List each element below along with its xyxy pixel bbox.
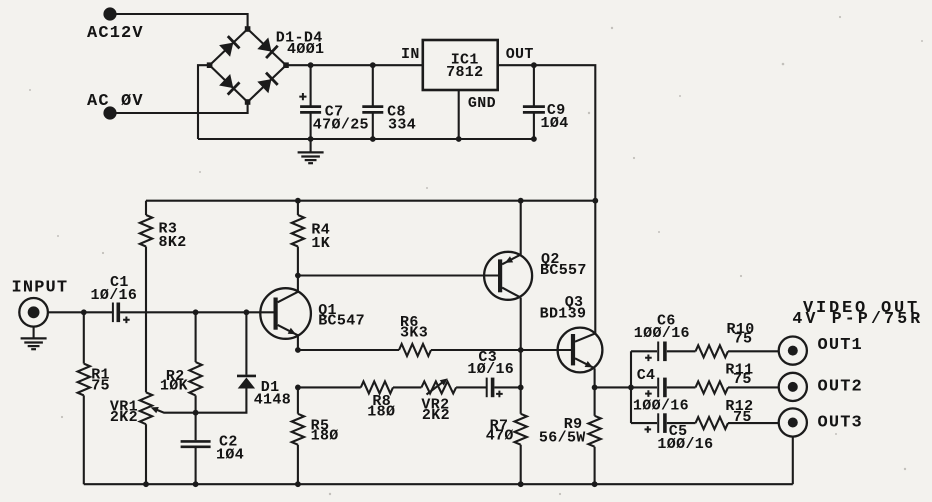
wire C6 to R10 <box>667 350 696 352</box>
svg-text:18Ø: 18Ø <box>311 428 339 445</box>
svg-text:7812: 7812 <box>446 64 483 81</box>
capacitor C1 <box>112 303 114 323</box>
wire amp ground rail <box>84 483 793 485</box>
wire R2 bottom lead <box>195 395 197 412</box>
resistor R7 <box>515 414 527 445</box>
svg-text:OUT3: OUT3 <box>818 413 863 432</box>
wire C2 bottom lead <box>195 447 197 484</box>
svg-text:1ØØ/16: 1ØØ/16 <box>657 436 713 453</box>
wire C4 to R11 <box>667 386 696 388</box>
wire R9 top lead <box>594 387 596 415</box>
svg-text:OUT1: OUT1 <box>818 336 863 355</box>
resistor R1 <box>78 364 90 396</box>
node R7 ground <box>518 481 524 487</box>
resistor R4 <box>292 215 304 247</box>
node C7 bottom <box>308 136 314 142</box>
wire C3 to node <box>494 386 520 388</box>
svg-text:56/5W: 56/5W <box>539 430 586 447</box>
node C2 ground <box>193 481 199 487</box>
diode D4 bridge bottom-right <box>257 79 271 93</box>
node feedback left <box>295 385 301 391</box>
resistor R2 <box>189 362 201 395</box>
svg-text:AC ØV: AC ØV <box>87 92 144 111</box>
node C3 right <box>518 385 524 391</box>
node C9 top <box>531 62 537 68</box>
wire R12 to OUT3 <box>728 422 778 424</box>
transistor Q1 <box>260 288 311 339</box>
terminal AC 0V <box>103 106 116 119</box>
wire VR2 to C3 <box>456 386 486 388</box>
wire bridge frame <box>210 29 286 102</box>
capacitor C8 <box>362 105 383 108</box>
capacitor C9 <box>523 105 545 108</box>
wire D1 anode to bias <box>196 389 247 413</box>
wire to R8 <box>298 386 361 388</box>
node R2 tap <box>193 309 199 315</box>
svg-text:18Ø: 18Ø <box>367 403 395 420</box>
wire R1 bottom lead <box>83 395 85 484</box>
node C8 bottom <box>370 136 376 142</box>
wire C8 leads <box>372 65 374 139</box>
node bridge top vertex <box>245 26 251 32</box>
svg-text:47Ø/25: 47Ø/25 <box>313 116 369 133</box>
node R1 tap <box>81 309 87 315</box>
node rail R4 <box>295 198 301 204</box>
wire Q2 emitter up <box>520 201 522 255</box>
plus C1 <box>123 317 130 324</box>
jack OUT3 <box>779 408 807 436</box>
diode D1 bridge top-left <box>219 43 233 57</box>
wire VR1 bottom lead <box>145 424 147 484</box>
svg-text:8K2: 8K2 <box>159 234 187 251</box>
wire OUT3 to ground rail <box>792 437 794 485</box>
node bridge left vertex <box>207 62 213 68</box>
svg-text:1Ø4: 1Ø4 <box>541 115 569 132</box>
wire input to C1 <box>48 311 112 313</box>
node R5 ground <box>295 481 301 487</box>
svg-text:4148: 4148 <box>254 392 291 409</box>
wire R3 top lead <box>145 201 147 215</box>
resistor R11 <box>696 381 729 393</box>
wire R11 to OUT2 <box>728 386 778 388</box>
wire OUT rail and drop <box>498 65 596 333</box>
wire hub to C5 <box>631 422 657 424</box>
node rail right <box>592 198 598 204</box>
wire R9 bottom lead <box>594 447 596 485</box>
resistor R12 <box>696 417 729 429</box>
resistor R10 <box>696 345 729 357</box>
wire R5 top lead <box>297 387 299 413</box>
svg-text:4V P-P/75R: 4V P-P/75R <box>792 309 923 328</box>
arrow VR2 <box>427 382 444 395</box>
svg-text:GND: GND <box>468 95 496 112</box>
resistor R6 <box>399 344 431 356</box>
svg-text:47Ø: 47Ø <box>486 428 514 445</box>
svg-text:3K3: 3K3 <box>400 324 428 341</box>
wire R7 top lead <box>520 350 522 414</box>
wire hub to C4 <box>631 386 657 388</box>
wire Q2 base <box>298 274 498 276</box>
node rail Q2 <box>518 198 524 204</box>
svg-text:1Ø4: 1Ø4 <box>216 446 244 463</box>
transistor Q2 <box>484 252 532 300</box>
wire hub to C6 <box>631 350 657 352</box>
svg-text:1ØØ/16: 1ØØ/16 <box>634 325 690 342</box>
arrow VR1 wiper <box>151 407 159 413</box>
capacitor C3 <box>486 378 488 398</box>
node VR1 ground <box>143 481 149 487</box>
wire PSU ground rail <box>198 138 536 140</box>
diode D3 bridge bottom-left <box>219 74 233 88</box>
diode D1 <box>237 375 256 378</box>
node Q1 emitter junction <box>295 347 301 353</box>
wire R7 bottom lead <box>520 445 522 485</box>
node Q1 collector / Q2 base <box>295 273 301 279</box>
transistor Q3 <box>558 328 603 373</box>
wire +12V amp rail <box>146 200 595 202</box>
capacitor C2 <box>181 440 211 443</box>
op-amp IC1 box <box>423 40 498 90</box>
wire Q3 emitter down <box>594 368 596 387</box>
svg-text:BD139: BD139 <box>540 306 587 323</box>
svg-text:C4: C4 <box>637 367 656 384</box>
wire bridge left to 0V rail <box>198 65 210 139</box>
ground INPUT jack <box>33 327 35 338</box>
svg-text:BC547: BC547 <box>318 313 365 330</box>
wire emitter to hub <box>595 386 631 388</box>
plus C4 <box>645 390 652 397</box>
wire C9 leads <box>533 65 535 139</box>
wire R5 bottom lead <box>297 445 299 485</box>
capacitor C4 <box>657 378 659 398</box>
svg-text:2K2: 2K2 <box>422 407 450 424</box>
svg-text:BC557: BC557 <box>540 262 587 279</box>
svg-text:4ØØ1: 4ØØ1 <box>287 41 324 58</box>
svg-text:INPUT: INPUT <box>12 278 69 297</box>
node C8 top <box>370 62 376 68</box>
diode D2 bridge top-right <box>257 38 271 52</box>
node IC1 GND <box>456 136 462 142</box>
node hub <box>628 385 634 391</box>
svg-text:2K2: 2K2 <box>110 409 138 426</box>
wire R4 top lead <box>297 201 299 215</box>
node Q3 emitter <box>592 385 598 391</box>
svg-text:1ØK: 1ØK <box>160 378 188 395</box>
ground main <box>310 139 312 152</box>
svg-text:75: 75 <box>733 371 752 388</box>
svg-text:1Ø/16: 1Ø/16 <box>91 287 138 304</box>
wire IC1 GND stub <box>458 90 460 139</box>
svg-text:1ØØ/16: 1ØØ/16 <box>633 397 689 414</box>
svg-text:1Ø/16: 1Ø/16 <box>467 361 514 378</box>
node R9 ground <box>592 481 598 487</box>
plus C3 <box>496 391 503 398</box>
jack INPUT <box>19 298 48 327</box>
resistor VR2 <box>421 381 456 393</box>
resistor R9 <box>588 416 600 447</box>
svg-text:AC12V: AC12V <box>87 24 144 43</box>
svg-text:1K: 1K <box>311 235 330 252</box>
terminal AC12V <box>103 7 116 20</box>
wire Q2 collector down <box>520 298 522 350</box>
wire VR1 wiper <box>156 410 196 413</box>
node Q2 collector junction <box>518 347 524 353</box>
capacitor C6 <box>657 342 659 362</box>
resistor R8 <box>361 381 393 393</box>
wire D1 cathode lead <box>245 312 247 375</box>
resistor VR1 <box>140 392 152 424</box>
wire R8 to VR2 <box>393 386 421 388</box>
wire AC 0V to bridge bottom <box>116 104 248 113</box>
svg-text:75: 75 <box>734 331 753 348</box>
capacitor C5 <box>657 413 659 433</box>
wire emitter to R6 <box>298 349 399 351</box>
wire R2 top lead <box>195 312 197 362</box>
svg-text:OUT2: OUT2 <box>818 377 863 396</box>
wire AC12V to bridge top <box>116 14 248 27</box>
jack OUT1 <box>779 337 807 365</box>
svg-text:334: 334 <box>388 116 416 133</box>
wire C5 to R12 <box>667 422 696 424</box>
wire C7 leads <box>310 65 312 139</box>
wire Q1 emitter down <box>297 335 299 350</box>
wire R6 to Q3 base <box>431 349 571 351</box>
svg-text:75: 75 <box>91 378 110 395</box>
resistor R3 <box>140 215 152 247</box>
node bias junction <box>193 410 199 416</box>
node bridge bottom vertex <box>245 99 251 105</box>
plus C7 <box>299 93 306 100</box>
wire R10 to OUT1 <box>728 350 778 352</box>
wire C2 top lead <box>195 413 197 441</box>
node C7 top <box>308 62 314 68</box>
node bridge right vertex <box>283 62 289 68</box>
node C9 bottom <box>531 136 537 142</box>
plus C6 <box>645 355 652 362</box>
plus C5 <box>645 426 652 433</box>
wire R1 top lead <box>83 312 85 363</box>
node D1 tap <box>244 309 250 315</box>
svg-text:OUT: OUT <box>506 46 534 63</box>
wire +12V rail to IC1 <box>286 64 423 66</box>
wire R3 to VR1 <box>145 247 147 393</box>
resistor R5 <box>292 414 304 445</box>
wire C1 to Q1 base <box>120 311 273 313</box>
wire R4 to Q1 collector <box>297 247 299 292</box>
capacitor C7 <box>300 105 321 108</box>
wire hub vertical <box>630 351 632 423</box>
svg-text:IN: IN <box>401 46 420 63</box>
jack OUT2 <box>779 373 807 401</box>
